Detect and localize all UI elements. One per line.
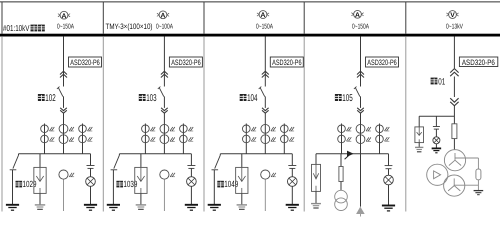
svg-text:A: A bbox=[62, 13, 67, 20]
svg-text:102: 102 bbox=[45, 93, 55, 104]
svg-text:A: A bbox=[355, 12, 360, 19]
svg-text:1049: 1049 bbox=[224, 179, 238, 189]
svg-text:01: 01 bbox=[438, 76, 445, 86]
svg-text:0~13kV: 0~13kV bbox=[446, 22, 463, 30]
svg-text:ASD320-P6: ASD320-P6 bbox=[462, 58, 495, 67]
svg-text:V: V bbox=[450, 12, 455, 19]
svg-text:0~100A: 0~100A bbox=[156, 23, 173, 30]
svg-text:TMY-3×(100×10): TMY-3×(100×10) bbox=[106, 22, 153, 31]
svg-text:1039: 1039 bbox=[123, 179, 137, 189]
svg-text:ASD320-P6: ASD320-P6 bbox=[171, 58, 201, 67]
svg-text:103: 103 bbox=[146, 93, 157, 104]
svg-text:0~150A: 0~150A bbox=[57, 23, 74, 30]
svg-text:105: 105 bbox=[342, 93, 353, 104]
svg-text:ASD320-P6: ASD320-P6 bbox=[272, 58, 302, 67]
svg-text:1029: 1029 bbox=[23, 179, 37, 189]
svg-text:ASD320-P6: ASD320-P6 bbox=[367, 58, 397, 67]
svg-text:ASD320-P6: ASD320-P6 bbox=[70, 58, 100, 67]
svg-text:0~150A: 0~150A bbox=[256, 23, 273, 30]
svg-text:0~150A: 0~150A bbox=[352, 23, 369, 30]
svg-text:A: A bbox=[161, 13, 166, 20]
svg-text:104: 104 bbox=[247, 93, 258, 104]
svg-text:A: A bbox=[261, 12, 266, 19]
svg-text:#01:10kV: #01:10kV bbox=[3, 23, 30, 33]
